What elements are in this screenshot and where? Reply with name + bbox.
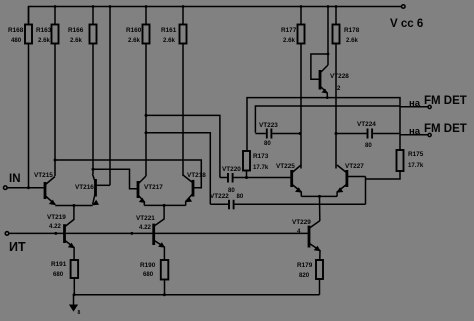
wire VT216 base to rail bbox=[109, 7, 111, 186]
svg-text:680: 680 bbox=[53, 271, 64, 278]
capacitor VT224 bbox=[335, 121, 401, 149]
svg-text:на: на bbox=[409, 98, 421, 109]
wire Vcc top rail bbox=[29, 5, 402, 24]
svg-text:8: 8 bbox=[78, 310, 81, 316]
wire ground rail bbox=[73, 293, 320, 296]
svg-text:2.6k: 2.6k bbox=[70, 37, 82, 44]
svg-text:VT217: VT217 bbox=[144, 184, 163, 191]
svg-text:80: 80 bbox=[365, 142, 372, 149]
resistor R163 bbox=[36, 7, 59, 177]
svg-text:R175: R175 bbox=[408, 151, 424, 158]
svg-text:ИТ: ИТ bbox=[9, 240, 26, 254]
transistor VT228 bbox=[311, 7, 349, 100]
transistor VT227 bbox=[336, 163, 365, 196]
svg-text:2.6k: 2.6k bbox=[163, 37, 175, 44]
svg-text:17.7k: 17.7k bbox=[253, 164, 269, 171]
terminal na FM DET 2 bbox=[400, 123, 467, 137]
resistor R177 bbox=[281, 7, 305, 169]
terminal IT bbox=[5, 232, 308, 254]
terminal Vcc bbox=[390, 5, 423, 30]
capacitor VT222 bbox=[210, 193, 366, 209]
svg-text:2.6k: 2.6k bbox=[346, 37, 358, 44]
svg-text:на: на bbox=[409, 126, 421, 137]
capacitor VT223 bbox=[255, 122, 301, 147]
svg-text:VT219: VT219 bbox=[47, 214, 66, 221]
svg-text:R166: R166 bbox=[68, 27, 84, 34]
resistor R166 bbox=[68, 7, 97, 175]
transistor VT225 bbox=[276, 163, 302, 196]
svg-text:4.22: 4.22 bbox=[139, 224, 151, 231]
wire VT227 base node bbox=[365, 177, 367, 205]
resistor R173 bbox=[243, 151, 269, 178]
resistor R161 bbox=[161, 7, 187, 177]
resistor R178 bbox=[333, 7, 360, 169]
svg-text:2: 2 bbox=[337, 85, 341, 92]
ground bbox=[69, 295, 81, 316]
svg-text:VT218: VT218 bbox=[187, 172, 206, 179]
svg-text:480: 480 bbox=[11, 37, 22, 44]
resistor R190 bbox=[140, 260, 168, 295]
terminal IN bbox=[4, 173, 44, 190]
transistor VT217 bbox=[138, 176, 163, 205]
svg-text:4.22: 4.22 bbox=[49, 223, 61, 230]
resistor R175 bbox=[366, 150, 424, 179]
svg-text:VT228: VT228 bbox=[330, 73, 349, 80]
resistor R191 bbox=[51, 260, 78, 295]
svg-text:VT224: VT224 bbox=[357, 121, 376, 128]
svg-text:R173: R173 bbox=[253, 153, 269, 160]
svg-text:R178: R178 bbox=[344, 27, 360, 34]
resistor R168 bbox=[8, 7, 32, 188]
svg-text:FM DET: FM DET bbox=[424, 123, 467, 135]
wire bus to FM DET 1 (VT228 emitter / R175 top) bbox=[247, 98, 400, 151]
transistor VT216 bbox=[75, 174, 110, 205]
svg-text:VT223: VT223 bbox=[259, 122, 278, 129]
resistor R179 bbox=[297, 260, 323, 295]
svg-text:R177: R177 bbox=[281, 27, 297, 34]
svg-text:VT225: VT225 bbox=[276, 163, 295, 170]
svg-text:820: 820 bbox=[299, 272, 310, 279]
svg-text:VT215: VT215 bbox=[34, 172, 53, 179]
svg-text:80: 80 bbox=[228, 187, 235, 194]
wire emitter bus pair3 bbox=[301, 195, 337, 221]
resistor R160 bbox=[126, 7, 150, 177]
wire emitter bus pair2 bbox=[144, 204, 185, 220]
svg-text:R161: R161 bbox=[161, 27, 177, 34]
wire bus to FM DET 2 bbox=[255, 106, 400, 133]
svg-text:VT222: VT222 bbox=[210, 193, 229, 200]
capacitor VT220 bbox=[220, 166, 292, 194]
svg-text:VT229: VT229 bbox=[292, 219, 311, 226]
wire stage2 output line B to cap VT222 bbox=[145, 131, 211, 204]
transistor VT221 bbox=[136, 215, 165, 260]
svg-text:FM DET: FM DET bbox=[424, 95, 467, 107]
svg-text:R163: R163 bbox=[36, 27, 52, 34]
svg-text:80: 80 bbox=[264, 140, 271, 147]
terminal na FM DET 1 bbox=[400, 95, 467, 109]
wire stage2 output line A to cap VT220 bbox=[145, 114, 220, 178]
svg-text:VT216: VT216 bbox=[75, 184, 94, 191]
transistor VT219 bbox=[47, 214, 75, 260]
wire emitter bus pair1 bbox=[55, 204, 92, 220]
svg-text:R190: R190 bbox=[140, 262, 156, 269]
svg-text:R160: R160 bbox=[126, 27, 142, 34]
svg-text:R179: R179 bbox=[297, 262, 313, 269]
svg-text:680: 680 bbox=[143, 271, 154, 278]
svg-text:IN: IN bbox=[9, 173, 21, 185]
transistor VT215 bbox=[34, 172, 56, 205]
transistor VT218 bbox=[183, 172, 206, 205]
transistor VT229 bbox=[292, 219, 321, 260]
svg-text:VT221: VT221 bbox=[136, 215, 155, 222]
svg-text:80: 80 bbox=[237, 193, 244, 200]
wire stage1 VT215 collector to VT218 base bbox=[54, 159, 202, 188]
svg-text:2.6k: 2.6k bbox=[283, 37, 295, 44]
svg-text:2.6k: 2.6k bbox=[128, 37, 140, 44]
svg-text:R168: R168 bbox=[8, 27, 24, 34]
svg-text:2.6k: 2.6k bbox=[38, 37, 50, 44]
svg-text:VT220: VT220 bbox=[222, 166, 241, 173]
svg-text:R191: R191 bbox=[51, 261, 67, 268]
wire stage1 VT216 collector to VT217 base bbox=[92, 168, 138, 189]
svg-text:17.7k: 17.7k bbox=[408, 162, 424, 169]
svg-text:V cc 6: V cc 6 bbox=[390, 18, 423, 30]
svg-text:VT227: VT227 bbox=[345, 163, 364, 170]
